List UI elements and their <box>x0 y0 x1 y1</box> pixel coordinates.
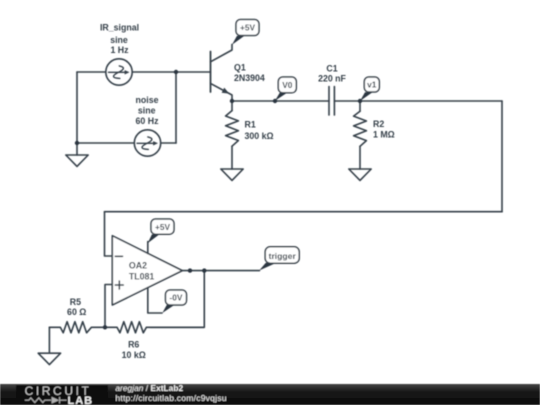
wire C1 right to corner <box>334 100 502 102</box>
wire source1 left <box>77 71 106 73</box>
power +5V op-amp <box>148 219 174 243</box>
svg-text:220 nF: 220 nF <box>318 74 346 84</box>
wire right vertical long <box>501 101 503 212</box>
svg-text:sine: sine <box>138 106 156 116</box>
junction base top <box>174 70 178 74</box>
svg-text:R6: R6 <box>128 340 139 350</box>
wire output feedback down <box>150 271 204 328</box>
svg-text:60 Hz: 60 Hz <box>136 116 160 126</box>
ground G4 <box>38 353 60 364</box>
junction output1 <box>188 268 192 272</box>
resistor R1 <box>226 101 239 169</box>
svg-text:http://circuitlab.com/c9vqjsu: http://circuitlab.com/c9vqjsu <box>115 393 226 403</box>
svg-text:-0V: -0V <box>170 293 183 303</box>
junction left bottom <box>75 141 79 145</box>
svg-text:TL081: TL081 <box>129 271 155 281</box>
svg-text:OA2: OA2 <box>129 260 147 270</box>
CircuitLab footer bar <box>0 383 540 405</box>
wire source2 left <box>77 142 134 144</box>
svg-text:+5V: +5V <box>240 23 255 33</box>
wire down to minus input <box>105 212 113 256</box>
junction V0 <box>273 99 277 103</box>
op-amp OA2 <box>112 236 182 313</box>
node V0 <box>275 77 296 101</box>
CircuitLab logo <box>16 384 108 405</box>
svg-text:sine: sine <box>110 35 128 45</box>
ground G3 <box>349 169 371 180</box>
svg-text:2N3904: 2N3904 <box>234 73 265 83</box>
resistor R6 <box>105 322 204 333</box>
wire feedback horizontal <box>105 211 503 213</box>
source V2 noise <box>134 130 160 156</box>
capacitor C1 <box>329 87 334 116</box>
svg-text:R5: R5 <box>70 297 81 307</box>
wire source1 right to base <box>133 71 211 73</box>
resistor R2 <box>354 101 367 169</box>
transistor Q1 <box>211 44 233 101</box>
svg-text:v1: v1 <box>367 80 377 90</box>
junction R5 R6 <box>103 325 107 329</box>
svg-text:Q1: Q1 <box>234 63 246 73</box>
wire source2 right <box>161 142 176 144</box>
node v1 <box>360 77 379 101</box>
svg-text:aregjan / ExtLab2: aregjan / ExtLab2 <box>115 383 183 393</box>
svg-text:noise: noise <box>136 95 159 105</box>
junction emitter <box>230 99 234 103</box>
svg-text:60 Ω: 60 Ω <box>67 307 86 317</box>
svg-text:R1: R1 <box>245 119 256 129</box>
power +5V Q1 <box>232 20 259 45</box>
junction v1 <box>358 99 362 103</box>
wire left vertical <box>76 72 78 143</box>
node trigger <box>259 247 299 271</box>
svg-text:V0: V0 <box>282 80 293 90</box>
ground G2 <box>221 169 243 180</box>
svg-text:R2: R2 <box>373 119 384 129</box>
svg-text:1 MΩ: 1 MΩ <box>373 130 395 140</box>
power -0V <box>162 290 186 313</box>
svg-text:LAB: LAB <box>68 395 94 405</box>
svg-text:C1: C1 <box>326 63 337 73</box>
svg-text:10 kΩ: 10 kΩ <box>122 350 146 360</box>
wire right vertical between sources <box>175 72 177 143</box>
svg-text:+5V: +5V <box>155 222 170 232</box>
ground G1 <box>66 143 88 166</box>
source V1 IR_signal <box>106 59 132 85</box>
svg-text:1 Hz: 1 Hz <box>110 45 129 55</box>
svg-text:300 kΩ: 300 kΩ <box>245 131 274 141</box>
wire plus input down <box>105 285 112 328</box>
wire output to trigger <box>182 270 259 272</box>
svg-text:IR_signal: IR_signal <box>100 23 139 33</box>
junction output2 <box>202 268 206 272</box>
svg-text:trigger: trigger <box>269 251 297 261</box>
resistor R5 <box>49 322 105 354</box>
wire emitter row to C1 <box>232 100 329 102</box>
